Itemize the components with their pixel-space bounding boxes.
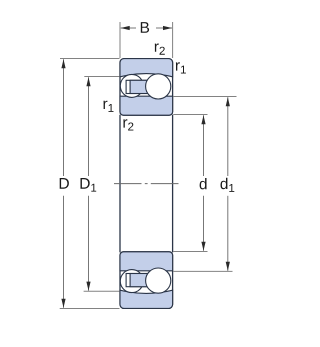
d arrow down — [201, 242, 205, 251]
D arrow up — [61, 59, 65, 68]
d1 dimension line upper segment — [227, 97, 229, 176]
right side face line — [172, 115, 174, 253]
label D — [60, 178, 69, 189]
D1 arrow up — [86, 77, 90, 86]
d1 arrow up — [226, 97, 230, 106]
D1 extension line top — [84, 76, 119, 78]
d arrow up — [201, 115, 205, 124]
label r1 right — [176, 62, 180, 70]
label d1 — [221, 178, 228, 189]
D dimension line upper segment — [63, 59, 65, 176]
B extension line left — [119, 22, 121, 58]
left side face line — [119, 115, 121, 253]
B extension line right — [172, 22, 174, 58]
d1 extension line bottom — [173, 270, 232, 272]
d1 dimension line lower segment — [227, 196, 229, 271]
label r2 top — [155, 44, 159, 52]
D1 arrow down — [86, 282, 90, 291]
bottom bearing section (mirror) — [120, 252, 173, 309]
top bearing section — [120, 59, 173, 116]
label d — [200, 178, 207, 189]
B arrow left — [121, 26, 130, 30]
d dimension line lower segment — [203, 196, 205, 251]
B dimension line right segment — [156, 27, 172, 29]
D1 dimension line lower segment — [88, 196, 90, 291]
D dimension line lower segment — [63, 196, 65, 308]
d extension line bottom — [173, 251, 207, 253]
d dimension line upper segment — [203, 115, 205, 176]
D extension line bottom — [60, 308, 120, 310]
label D1 — [81, 178, 90, 189]
d1 arrow down — [226, 262, 230, 271]
D extension line top — [60, 58, 120, 60]
label B — [141, 22, 149, 33]
d1 extension line top — [173, 96, 236, 98]
D1 extension line bottom — [84, 290, 120, 292]
label r2 left — [123, 119, 127, 127]
B dimension line left segment — [121, 27, 136, 29]
label r1 left — [104, 101, 108, 109]
D arrow down — [61, 299, 65, 308]
D1 dimension line upper segment — [88, 77, 90, 176]
B arrow right — [163, 26, 172, 30]
center line — [114, 183, 179, 185]
d extension line top — [173, 114, 207, 116]
